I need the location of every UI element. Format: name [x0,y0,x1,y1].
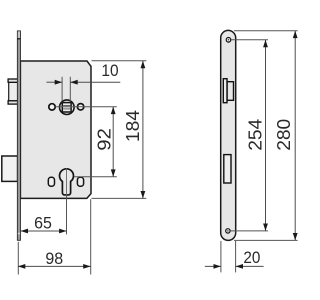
faceplate (side view) [221,30,236,240]
spindle follower square hub [60,100,75,115]
centre line through follower [55,106,116,108]
dimension 254 [231,40,269,231]
dimension 184 [92,61,147,199]
faceplate edge (front view strip) [17,31,20,240]
svg-text:10: 10 [101,61,118,80]
svg-text:98: 98 [45,249,63,268]
deadbolt slot (side view) [224,155,231,183]
bottom screw hole [226,229,230,233]
dimension 98 [18,199,91,274]
left fixing hole [49,104,55,110]
dimension 65 [21,196,67,235]
deadbolt (front view) [2,156,18,181]
latch bolt (side view) [223,79,233,103]
cylinder centre line [66,168,68,196]
svg-text:65: 65 [34,214,52,233]
svg-text:254: 254 [246,119,266,151]
svg-text:20: 20 [243,248,260,267]
dimension 20 [205,241,264,273]
right fixing hole [77,104,83,110]
svg-text:280: 280 [274,119,294,151]
svg-text:184: 184 [123,110,143,142]
lock body [20,61,91,198]
left slot hole [48,177,54,186]
top screw hole [226,38,231,43]
svg-text:92: 92 [94,128,114,151]
dimension 92 [74,107,117,177]
euro cylinder hole [59,169,73,195]
right slot hole [77,177,83,186]
latch bolt (front view) [8,79,18,104]
dimension 280 [234,31,298,241]
dimension 10 [47,61,121,101]
